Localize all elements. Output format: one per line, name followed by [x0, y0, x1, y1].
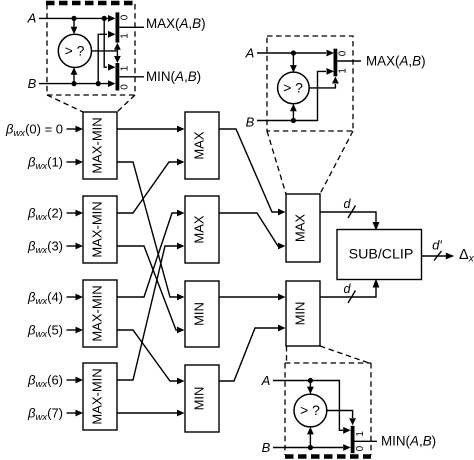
wire: B to mux-0 input: [39, 80, 116, 87]
junction on B wire: [308, 445, 313, 450]
wire: B to mux-0 input: [273, 444, 351, 451]
svg-text:d: d: [344, 197, 352, 211]
input beta_wx(7): [27, 406, 83, 424]
callout funnel to U9 MAX: [267, 131, 353, 194]
svg-text:MIN: MIN: [192, 302, 207, 326]
svg-text:SUB/CLIP: SUB/CLIP: [349, 246, 414, 262]
wire: U7 out to U10 in1: [219, 294, 286, 301]
svg-text:MAX: MAX: [192, 131, 207, 160]
input beta_wx(0) = 0: [5, 122, 83, 140]
svg-text:MAX: MAX: [192, 215, 207, 244]
wire: U1 min out to U7 in1: [117, 162, 185, 300]
wire: A to mux-0 input: [39, 15, 116, 22]
wire: A down into comparator: [290, 53, 297, 73]
input beta_wx(5): [27, 323, 83, 341]
junction on B wire at crossover branch: [96, 81, 101, 86]
callout funnel from U10 MIN: [287, 346, 370, 363]
svg-text:0: 0: [120, 14, 131, 20]
wire: U4 max out to U6 in2: [117, 243, 185, 380]
svg-text:d: d: [344, 282, 352, 296]
block U1 MAX-MIN (stage 1): [83, 112, 117, 179]
svg-text:MAX-MIN: MAX-MIN: [90, 368, 105, 424]
input beta_wx(3): [27, 239, 83, 257]
svg-text:0: 0: [338, 50, 349, 56]
wire: U3 max out to U6 in1: [117, 210, 185, 297]
wire: MAX(A,B) output: [337, 60, 361, 62]
mux bar (MAX mux, top-right detail): [334, 49, 338, 77]
wire: MAX(A,B) output: [119, 26, 144, 28]
junction on B wire below comparator: [71, 81, 76, 86]
svg-text:MAX: MAX: [293, 214, 308, 243]
svg-text:MAX(A,B): MAX(A,B): [366, 53, 426, 68]
svg-text:1: 1: [355, 431, 366, 437]
svg-text:> ?: > ?: [300, 402, 320, 418]
svg-text:1: 1: [120, 33, 131, 39]
junction on B wire: [291, 118, 296, 123]
block U2 MAX-MIN (stage 1): [83, 196, 117, 263]
svg-text:1: 1: [338, 68, 349, 74]
input beta_wx(1): [27, 155, 83, 173]
junction on A wire above comparator: [71, 16, 76, 21]
wire: A down into comparator: [71, 18, 78, 34]
svg-text:MAX-MIN: MAX-MIN: [90, 285, 105, 341]
svg-text:B: B: [28, 76, 37, 91]
svg-text:MIN(A,B): MIN(A,B): [146, 69, 201, 84]
block U4 MAX-MIN (stage 1): [83, 363, 117, 430]
junction on A wire: [308, 378, 313, 383]
wire: comparator select to mux: [327, 411, 356, 426]
mux bar (MAX output mux): [116, 12, 120, 42]
callout funnel to MAX-MIN block 1: [47, 95, 135, 112]
wire: U8 out to U10 in2: [219, 325, 286, 381]
comparator (top-right detail): [278, 72, 310, 104]
bus d-prime: SUB/CLIP output to Delta_x: [422, 238, 455, 261]
bus d: U10 min to SUB/CLIP bottom: [320, 279, 379, 304]
dashed callout box: MIN block internals (bottom-right): [285, 363, 371, 457]
block U3 MAX-MIN (stage 1): [83, 280, 117, 347]
svg-text:1: 1: [120, 65, 131, 71]
wire: U2 min out to U7 in2: [117, 246, 185, 333]
block U11 SUB/CLIP: [337, 230, 422, 280]
svg-text:MAX-MIN: MAX-MIN: [90, 117, 105, 173]
input beta_wx(2): [27, 206, 83, 224]
svg-text:> ?: > ?: [283, 79, 303, 95]
wire: B up into comparator: [290, 104, 297, 121]
svg-text:MAX(A,B): MAX(A,B): [146, 16, 206, 31]
wire: U1 max out to U5 in1: [117, 126, 185, 133]
dashed callout box: MAX-MIN block internals (top-left): [46, 3, 136, 95]
comparator (bottom-right detail): [294, 394, 327, 427]
mux bar (MIN mux, bottom-right detail): [351, 426, 355, 453]
wire: MIN(A,B) output: [119, 76, 144, 78]
svg-text:MAX-MIN: MAX-MIN: [90, 201, 105, 257]
wire: U4 min out to U8 in2: [117, 410, 185, 417]
block U6 MAX (stage 2): [185, 196, 219, 263]
svg-text:MIN: MIN: [192, 387, 207, 411]
bus d: U9 max to SUB/CLIP top: [320, 197, 379, 231]
svg-text:MIN: MIN: [293, 302, 308, 326]
wire: A down to mux-1 input: [273, 381, 351, 434]
wire: B up into comparator: [71, 67, 78, 83]
wire: U5 out to U9 in1: [219, 129, 286, 215]
wire: U6 out to U9 in2: [219, 213, 286, 249]
junction on A wire: [291, 50, 296, 55]
block U9 MAX (stage 3): [286, 194, 320, 262]
wire: U3 min out to U8 in1: [117, 330, 185, 384]
wire: A branch down to lower mux-1 input: [104, 18, 115, 70]
comparator (top-left detail): [58, 34, 91, 67]
mux bar (MIN output mux): [116, 63, 120, 91]
svg-text:A: A: [261, 373, 271, 388]
block U7 MIN (stage 2): [185, 281, 219, 347]
wire: B up to mux-1 input: [257, 68, 334, 121]
wire: B up into comparator: [307, 427, 314, 448]
dashed callout box: MAX block internals (top-right): [267, 36, 353, 131]
svg-text:B: B: [262, 440, 271, 455]
svg-text:0: 0: [355, 445, 366, 451]
wire: comparator select to both muxes: [92, 43, 121, 63]
wire: comparator select to mux: [309, 77, 339, 88]
svg-text:B: B: [246, 115, 255, 130]
wire: B branch up to upper mux-1 input: [98, 31, 115, 84]
block U8 MIN (stage 2): [185, 365, 219, 432]
input beta_wx(4): [27, 290, 83, 308]
svg-text:> ?: > ?: [65, 42, 85, 58]
junction on A wire at crossover branch: [102, 16, 107, 21]
block U5 MAX (stage 2): [185, 112, 219, 179]
svg-text:A: A: [27, 11, 37, 26]
wire: A down into comparator: [307, 381, 314, 395]
svg-text:d′: d′: [432, 238, 442, 253]
svg-text:0: 0: [120, 84, 131, 90]
block U10 MIN (stage 3): [286, 281, 320, 346]
svg-text:MIN(A,B): MIN(A,B): [381, 434, 436, 449]
input beta_wx(6): [27, 373, 83, 391]
wire: U2 max out to U5 in2: [117, 159, 185, 213]
wire: MIN(A,B) output: [355, 440, 378, 442]
wire: A to mux-0 input: [257, 50, 334, 57]
svg-text:A: A: [245, 45, 255, 60]
